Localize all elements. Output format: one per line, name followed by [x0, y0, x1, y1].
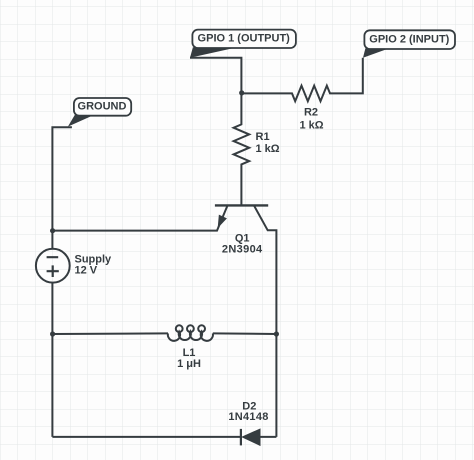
svg-text:GPIO 1 (OUTPUT): GPIO 1 (OUTPUT) — [198, 33, 291, 45]
svg-text:GROUND: GROUND — [78, 101, 127, 113]
svg-text:1N4148: 1N4148 — [228, 411, 268, 423]
svg-text:1 kΩ: 1 kΩ — [256, 143, 280, 155]
svg-text:1 μH: 1 μH — [177, 358, 201, 370]
svg-text:12 V: 12 V — [75, 265, 98, 277]
svg-text:Q1: Q1 — [235, 232, 250, 244]
svg-text:R2: R2 — [304, 107, 318, 119]
svg-text:GPIO 2 (INPUT): GPIO 2 (INPUT) — [369, 34, 449, 46]
svg-text:1 kΩ: 1 kΩ — [299, 119, 323, 131]
svg-text:R1: R1 — [256, 131, 270, 143]
svg-text:2N3904: 2N3904 — [222, 244, 263, 256]
